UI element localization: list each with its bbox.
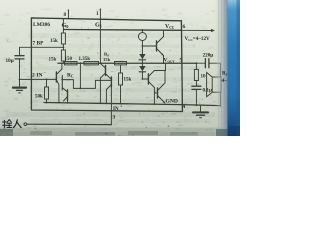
transistor Q7 bottom NPN [154,70,165,104]
op-amp U1 LM386 package outline [31,18,182,112]
svg-text:2: 2 [32,73,35,79]
svg-text:50k: 50k [35,95,43,100]
pin 4 GND label [166,98,186,110]
wire pin1 riser [99,19,101,63]
svg-text:10μ: 10μ [6,58,14,64]
svg-text:IN: IN [37,73,43,79]
capacitor C3 0.1u [192,81,212,107]
svg-text:8: 8 [64,12,67,18]
svg-text:7: 7 [33,41,36,47]
wire input external [24,123,111,126]
svg-text:BP: BP [37,41,45,47]
diode D2 [139,66,145,80]
svg-text:220μ: 220μ [203,53,214,59]
svg-text:1.35k: 1.35k [79,57,91,62]
transistor Q5 top NPN [142,29,165,63]
wire pin7 external [20,47,32,55]
diode D1 [139,54,145,66]
wire R2 bottom [62,61,64,63]
resistor R5 1.35k [79,57,99,65]
label Rc [67,73,74,79]
label Vcc=4~12V [185,36,210,42]
current source I1 [138,29,146,54]
wire base coupling Z [61,63,110,89]
transistor Q1 [56,63,62,103]
ground right [193,105,208,117]
svg-text:3: 3 [113,115,116,121]
label LM386 [33,22,50,28]
wire emitter row / output feedback [58,62,196,64]
wire R1 to R2 with pin7 tap [63,44,65,50]
pin 2 IN- wire [20,70,57,79]
svg-text:15k: 15k [50,39,58,44]
svg-text:15k: 15k [103,57,111,62]
svg-text:1: 1 [96,11,99,17]
ground left [13,88,26,93]
svg-text:15k: 15k [49,58,57,63]
svg-text:LM386: LM386 [33,22,50,28]
svg-text:0.1μ: 0.1μ [203,88,212,94]
pin 7 BP wire [31,41,63,48]
resistor R7 10 [194,63,206,80]
resistor R1 15k [50,33,65,44]
wire C1 to ground [19,59,21,87]
wire out to cap [196,62,205,64]
node G0 [62,22,69,29]
svg-text:5: 5 [180,58,183,64]
label RL speaker [222,71,237,85]
svg-text:150: 150 [65,57,73,62]
transistor Q3 [100,63,106,104]
node G1 [95,21,102,28]
transistor Q6 PNP driver [142,63,165,105]
speaker RL [207,72,221,96]
wire GND rail [44,103,181,105]
wire pin8 to R1 [62,19,64,33]
svg-text:GND: GND [166,98,178,104]
pin 5 Vout label [164,58,183,64]
wire to speaker [220,63,222,106]
page edge shadow [215,0,229,136]
wire Vcc external [181,29,216,32]
pin 3 IN+ riser [111,87,123,125]
svg-text:G0: G0 [62,22,69,29]
transistor Q2 [62,76,68,104]
pin 1 gain [96,9,101,20]
blue page edge strip [228,0,241,136]
svg-text:15k: 15k [124,78,132,83]
transistor Q4 [106,75,112,105]
capacitor C2 220u output [196,53,221,68]
wire Vcc rail [63,29,181,32]
pin 8 gain [64,10,70,19]
resistor R2 15k [49,50,66,63]
resistor R3 50k [35,79,49,104]
wire ground external [181,105,220,106]
resistor R4 150 [65,57,78,65]
svg-text:IN: IN [113,107,119,112]
svg-text:10: 10 [201,75,207,80]
svg-text:6: 6 [183,24,186,30]
resistor R6 15k [119,65,132,105]
resistor RF 15k [103,52,127,65]
pin 6 Vcc label [165,24,186,30]
capacitor C1 10u bypass [6,56,25,64]
label input (Chinese shu-ru) [3,120,22,128]
